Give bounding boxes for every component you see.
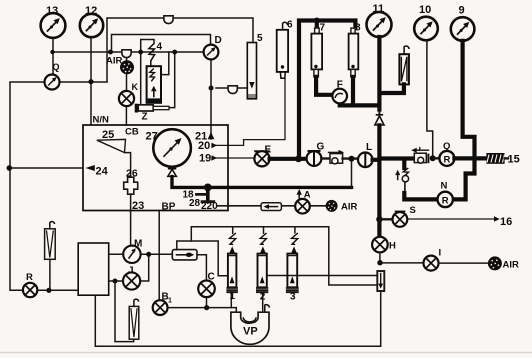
svg-text:13: 13 bbox=[46, 5, 58, 17]
svg-text:28: 28 bbox=[189, 198, 201, 209]
needle valve G side bbox=[329, 150, 345, 164]
wire gauge 13 stem bbox=[52, 38, 54, 75]
svg-text:G: G bbox=[317, 142, 325, 153]
svg-text:R: R bbox=[26, 272, 33, 283]
spring drop cylinder 3 bbox=[294, 227, 296, 233]
svg-text:K: K bbox=[132, 82, 139, 92]
junction dot S bbox=[376, 216, 382, 222]
valve A bbox=[295, 199, 310, 214]
spring relief 4 zigzag bbox=[149, 44, 155, 67]
svg-text:Q: Q bbox=[53, 62, 60, 72]
restrictor cup on AIR line bbox=[122, 50, 131, 58]
gauge 12 bbox=[80, 14, 103, 37]
valve E bbox=[254, 151, 269, 166]
wire B1 to VP junction bbox=[168, 308, 237, 313]
valve R bbox=[23, 283, 37, 297]
svg-text:220: 220 bbox=[201, 201, 218, 212]
damper Z bbox=[135, 104, 169, 113]
air ball mid bbox=[326, 200, 338, 212]
svg-text:AIR: AIR bbox=[341, 202, 358, 213]
svg-text:R: R bbox=[442, 196, 449, 207]
bellows 25 bbox=[97, 139, 126, 152]
terminal 18 28 220 bbox=[197, 184, 214, 202]
rotameter left lower bbox=[129, 299, 139, 339]
valve 26 body bbox=[124, 177, 138, 194]
valve L bbox=[358, 152, 373, 167]
flow element M J output bbox=[172, 250, 197, 260]
svg-text:19: 19 bbox=[199, 153, 211, 165]
wire cylinder 1 to VP bbox=[230, 293, 232, 308]
gauge 9 bbox=[451, 17, 475, 41]
flow sensor rotameter right bbox=[399, 46, 409, 84]
wire bellows 25 to valve 26 bbox=[125, 153, 131, 177]
svg-text:L: L bbox=[366, 142, 372, 153]
svg-text:15: 15 bbox=[508, 154, 520, 166]
svg-text:D: D bbox=[215, 35, 222, 46]
wire element to valve C bbox=[197, 255, 206, 281]
valve H bbox=[372, 237, 388, 253]
valve I bbox=[424, 256, 439, 271]
wire S to port 16 bbox=[407, 218, 496, 220]
svg-text:12: 12 bbox=[85, 5, 97, 17]
svg-text:C: C bbox=[208, 272, 215, 283]
coil 15 bbox=[486, 153, 508, 164]
valve B1 bbox=[153, 300, 168, 315]
mixer box bbox=[78, 243, 109, 295]
svg-text:J: J bbox=[128, 266, 134, 277]
wires M J outputs bbox=[140, 254, 172, 281]
svg-text:R: R bbox=[444, 155, 451, 166]
svg-text:N/N: N/N bbox=[93, 115, 110, 126]
thick main line right to needle valve Q bbox=[381, 156, 414, 160]
svg-text:M: M bbox=[134, 239, 142, 250]
wire gauge 12 stem bbox=[90, 37, 92, 125]
gauge Q bbox=[45, 75, 60, 90]
gauge F bbox=[332, 89, 347, 104]
wire to valve S bbox=[381, 218, 393, 220]
thick to regulator N bbox=[404, 193, 437, 199]
wire port BP to valve B1 bbox=[158, 211, 160, 301]
svg-text:3: 3 bbox=[290, 292, 296, 303]
air ball right bbox=[488, 256, 502, 270]
wires M J to mixer box bbox=[109, 254, 124, 281]
svg-text:5: 5 bbox=[257, 33, 263, 44]
wire AIR inlet line to gauge D bbox=[52, 51, 204, 53]
svg-text:20: 20 bbox=[198, 140, 210, 152]
svg-text:2: 2 bbox=[260, 292, 266, 303]
wire relief 4 return line bbox=[162, 52, 175, 108]
flow indicator below H bbox=[377, 271, 384, 291]
valve S bbox=[393, 211, 408, 226]
thick gauge 11 stem main vertical bbox=[377, 37, 381, 110]
wire gauge Q right link bbox=[59, 81, 107, 83]
valve J bbox=[123, 272, 140, 289]
svg-text:H: H bbox=[389, 241, 396, 252]
vaporizer cylinder 3 bbox=[287, 233, 298, 292]
check valve main line bbox=[375, 108, 384, 126]
svg-text:23: 23 bbox=[132, 200, 144, 212]
cylinder 7 bbox=[311, 28, 322, 77]
svg-text:N: N bbox=[441, 181, 448, 192]
needle valve Q side bbox=[411, 148, 428, 164]
svg-text:25: 25 bbox=[102, 129, 114, 141]
regulator N bbox=[438, 192, 453, 207]
svg-text:A: A bbox=[304, 190, 311, 201]
wire vaporizer feed lower bbox=[177, 241, 228, 276]
svg-text:AIR: AIR bbox=[106, 56, 123, 67]
wire relief 4 bracket bbox=[141, 40, 154, 53]
restrictor cup on top line bbox=[164, 16, 173, 24]
wire vaporizer output bbox=[267, 275, 378, 277]
valve A stub arrow bbox=[297, 189, 302, 199]
wire I to air ball right bbox=[439, 262, 489, 264]
svg-text:11: 11 bbox=[373, 3, 385, 15]
svg-text:24: 24 bbox=[96, 166, 109, 178]
gauge 10 bbox=[414, 17, 438, 41]
wire dot to regulator Q bbox=[436, 157, 440, 159]
junction dots left section bbox=[50, 50, 54, 54]
svg-text:10: 10 bbox=[419, 4, 431, 16]
svg-text:8: 8 bbox=[355, 23, 361, 34]
gauge 11 bbox=[367, 12, 392, 37]
svg-text:4: 4 bbox=[157, 42, 163, 53]
svg-text:AIR: AIR bbox=[503, 260, 520, 271]
thick main vertical to valve H bbox=[377, 125, 381, 236]
wire port 23 to gauge M bbox=[130, 194, 132, 246]
thick gauge 9 stem to junction and N loop bbox=[453, 41, 475, 200]
svg-text:6: 6 bbox=[287, 20, 293, 31]
cylinder 8 bbox=[349, 28, 359, 77]
svg-text:9: 9 bbox=[459, 5, 465, 17]
wire branch down to damper Z bbox=[140, 52, 142, 105]
svg-text:VP: VP bbox=[243, 326, 258, 338]
cylinder 5 bbox=[247, 43, 256, 99]
svg-text:Q: Q bbox=[443, 141, 450, 152]
wire port 19 to valve E bbox=[215, 157, 255, 159]
wire R to mixer box bbox=[37, 289, 78, 291]
gauge 27 bbox=[153, 129, 191, 167]
arrow port 20 bbox=[211, 143, 217, 149]
wire flow indicator to bottom rail bbox=[95, 291, 380, 346]
flow direction element on air line bbox=[261, 203, 281, 211]
thick L to main vertical bbox=[373, 158, 380, 162]
wire top supply line with drop to cylinder 5 bbox=[107, 18, 253, 82]
thick cylinder 7 line to gauge F bbox=[316, 77, 333, 95]
vaporizer cylinder 1 bbox=[227, 233, 237, 292]
thick cylinder 8 drop bbox=[351, 77, 355, 106]
svg-text:27: 27 bbox=[146, 131, 158, 143]
gauge D bbox=[204, 45, 219, 60]
vaporizer cylinder 2 bbox=[257, 233, 268, 292]
wire gauge 10 stem to regulator bbox=[427, 40, 433, 155]
arrow port 19 bbox=[211, 155, 217, 161]
valve C bbox=[198, 281, 215, 298]
svg-text:E: E bbox=[265, 145, 272, 156]
thick stub cylinder 7 bbox=[315, 21, 319, 29]
relief 4 inner body bbox=[147, 66, 161, 103]
thick F manifold to main line bbox=[340, 103, 380, 105]
wire upper branch to gauge D bbox=[112, 35, 211, 53]
rotameter left upper bbox=[45, 222, 56, 291]
svg-text:F: F bbox=[337, 79, 343, 90]
thick pressure reducer drop bbox=[402, 161, 406, 169]
air filter ball top bbox=[120, 60, 134, 74]
pressure reducer N side bbox=[395, 168, 408, 194]
wire cylinder 2 to VP bbox=[262, 293, 264, 312]
wire C down bbox=[206, 297, 208, 308]
wire air line 220 to valve A bbox=[218, 205, 326, 207]
gauge M bbox=[123, 246, 140, 263]
wire port 20 to cylinder 6 bbox=[215, 78, 285, 145]
restrictor cup on D line bbox=[228, 86, 237, 94]
thick line 27 to terminal 220 and to L junction bbox=[172, 177, 352, 188]
svg-text:CB: CB bbox=[125, 127, 139, 138]
thick regulator Q to coil 15 bbox=[454, 156, 486, 160]
faint page edge bbox=[0, 352, 532, 353]
check valve below 27 bbox=[168, 167, 177, 177]
svg-text:16: 16 bbox=[500, 216, 512, 228]
valve K bbox=[119, 91, 134, 106]
svg-text:S: S bbox=[410, 205, 416, 216]
wire port 24 line bbox=[9, 167, 83, 169]
cylinder 6 bbox=[277, 22, 288, 78]
thick oxygen manifold top bbox=[299, 21, 355, 159]
wire air ball to valve K to box CB bbox=[125, 56, 127, 126]
svg-text:26: 26 bbox=[126, 168, 138, 180]
control box N/N bbox=[83, 125, 228, 211]
wire vaporizer feed upper bbox=[191, 227, 377, 285]
regulator Q bbox=[439, 151, 454, 166]
svg-text:1: 1 bbox=[230, 291, 236, 302]
svg-text:BP: BP bbox=[162, 202, 176, 213]
wire G to needle valve bbox=[321, 157, 330, 159]
spring drop cylinder 1 bbox=[232, 227, 234, 233]
spring drop cylinder 2 bbox=[263, 227, 265, 233]
wire gauge D to cylinder 5 bbox=[216, 87, 247, 89]
arrow port 21 bbox=[208, 132, 215, 139]
valve G bbox=[307, 151, 322, 166]
wire gauge D stem and down to port 21 bbox=[210, 59, 212, 139]
vaporizer pot VP bbox=[231, 305, 270, 345]
wire H to junction bbox=[379, 253, 381, 260]
wire needle valve to junction bbox=[343, 157, 359, 159]
svg-text:I: I bbox=[439, 248, 442, 259]
svg-text:1: 1 bbox=[168, 298, 172, 305]
wire J junction to rotameter lower bbox=[115, 283, 134, 342]
gauge 13 bbox=[41, 13, 66, 38]
wire gauge Q left loop to valve R bbox=[10, 82, 45, 290]
svg-text:7: 7 bbox=[320, 23, 326, 34]
thick valve E to G bbox=[270, 157, 307, 161]
arrow port 24 bbox=[86, 165, 95, 171]
thick rotameter elbow to main line bbox=[381, 84, 404, 93]
wire junction to valve I bbox=[383, 262, 424, 264]
svg-text:Z: Z bbox=[142, 112, 148, 123]
